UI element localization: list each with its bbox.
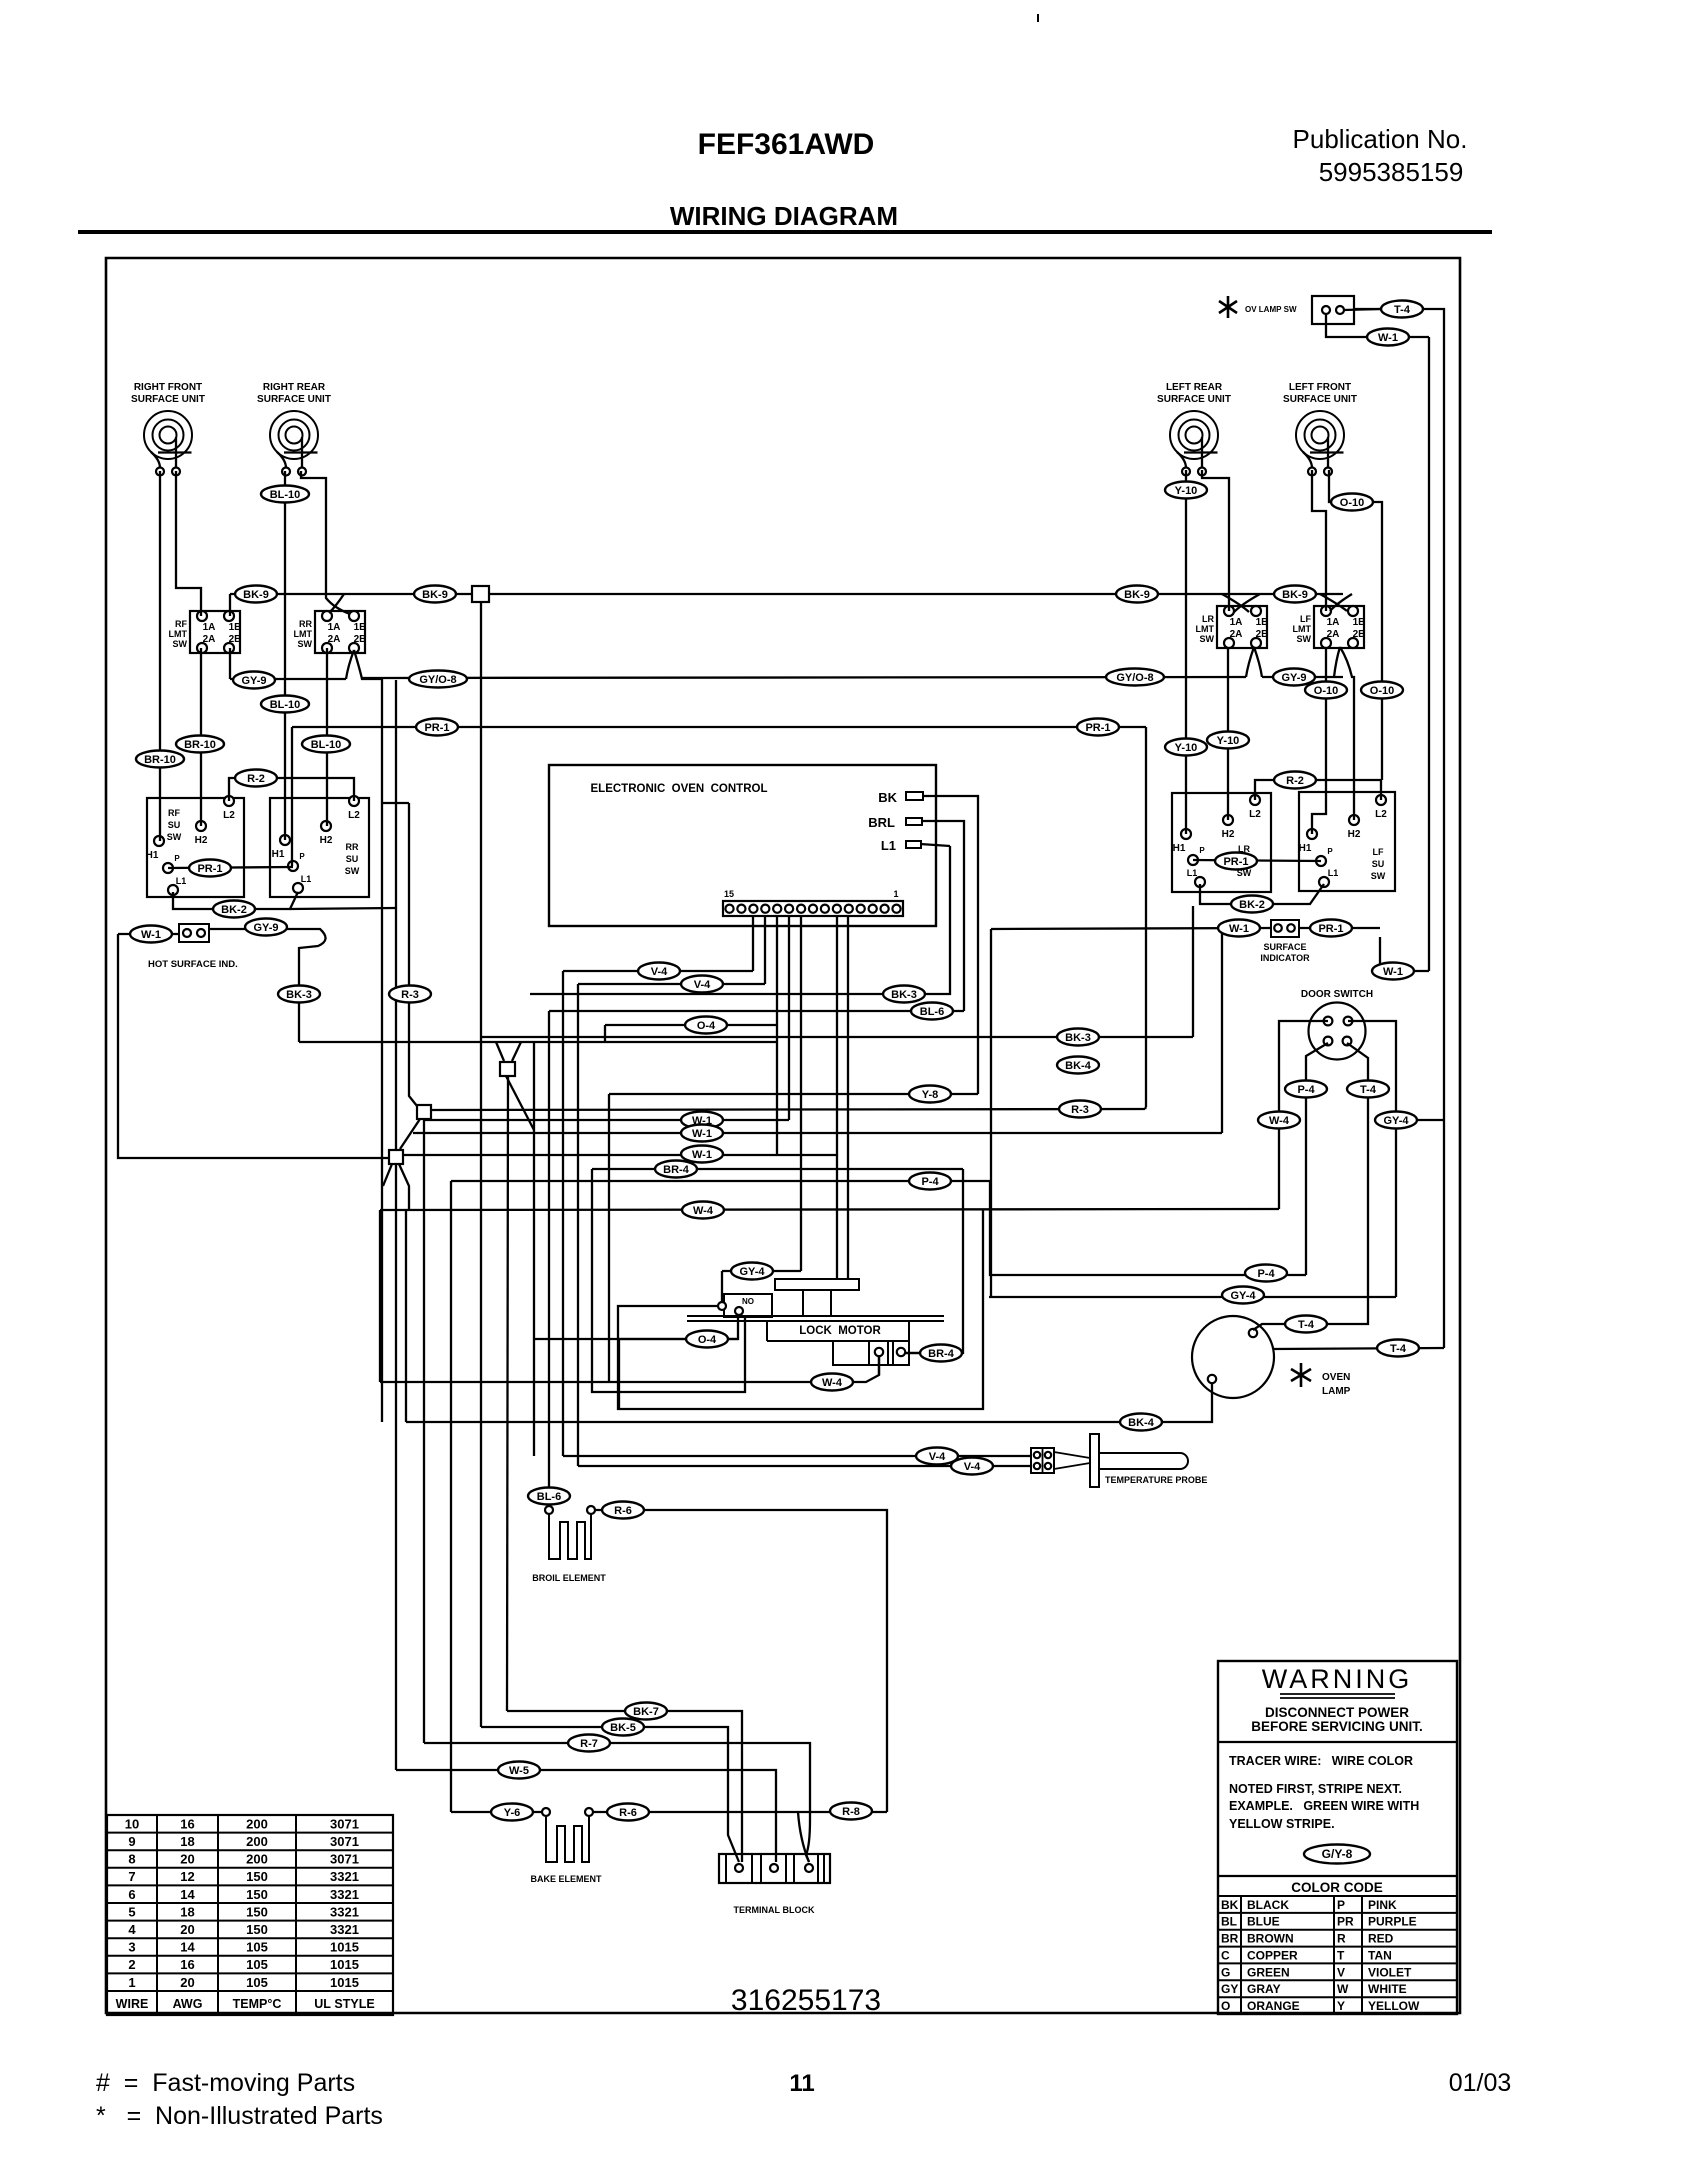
svg-text:RED: RED — [1368, 1932, 1394, 1946]
svg-text:W-4: W-4 — [1269, 1115, 1290, 1127]
svg-text:PINK: PINK — [1368, 1898, 1397, 1912]
wire BK-7 line — [507, 1711, 742, 1862]
svg-text:L2: L2 — [348, 810, 360, 821]
wire label PR-1 — [1310, 920, 1352, 937]
svg-text:PR-1: PR-1 — [1085, 722, 1110, 734]
wire R-8 drop to terminal 3 — [798, 1812, 809, 1862]
svg-text:GY: GY — [1221, 1982, 1238, 1996]
terminal block TB1 — [719, 1854, 830, 1915]
wire junction1 in b — [512, 1042, 521, 1061]
svg-text:L1: L1 — [301, 874, 312, 884]
svg-text:H2: H2 — [195, 835, 208, 846]
svg-text:COPPER: COPPER — [1247, 1948, 1298, 1962]
svg-text:V-4: V-4 — [694, 979, 711, 991]
wire label Y-10 — [1165, 739, 1207, 756]
wire bake R-6 line — [593, 1811, 887, 1813]
wire label R-6 — [607, 1804, 649, 1821]
svg-text:1: 1 — [893, 889, 898, 899]
svg-text:BK-2: BK-2 — [221, 904, 247, 916]
svg-text:R-2: R-2 — [1286, 775, 1304, 787]
svg-text:H2: H2 — [1222, 829, 1235, 840]
svg-text:LF: LF — [1300, 614, 1311, 624]
svg-text:BROWN: BROWN — [1247, 1932, 1294, 1946]
wire BR-4 left drop — [592, 1169, 745, 1392]
svg-text:SURFACE UNIT: SURFACE UNIT — [1283, 394, 1357, 405]
wire RR LMT 2B crossing left — [346, 650, 354, 679]
svg-text:RF: RF — [168, 808, 180, 818]
svg-text:O: O — [1221, 1999, 1230, 2013]
svg-text:LMT: LMT — [294, 629, 313, 639]
svg-text:BL-10: BL-10 — [270, 489, 301, 501]
wire label BK-3 — [1057, 1029, 1099, 1046]
svg-text:W-1: W-1 — [141, 929, 161, 941]
svg-text:BR-10: BR-10 — [184, 739, 216, 751]
svg-text:R-7: R-7 — [580, 1738, 598, 1750]
wire label BK-9 — [414, 586, 456, 603]
svg-text:150: 150 — [246, 1887, 268, 1902]
wire BK tab lead (Y-8) — [922, 796, 978, 1094]
svg-text:TRACER WIRE: WIRE COLOR: TRACER WIRE: WIRE COLOR — [1229, 1754, 1413, 1768]
wire label BL-6 — [911, 1003, 953, 1020]
wire label W-1 — [1372, 963, 1414, 980]
svg-text:BK-4: BK-4 — [1065, 1060, 1092, 1072]
wire BK-4 lamp lead — [406, 1383, 1212, 1422]
wire RF left pin to H1 (BR-10) — [159, 471, 161, 841]
svg-text:BL-6: BL-6 — [920, 1006, 944, 1018]
svg-text:3321: 3321 — [330, 1922, 359, 1937]
wire strip pin drop lock 2 — [847, 916, 849, 1279]
svg-text:W-5: W-5 — [509, 1765, 529, 1777]
svg-text:L1: L1 — [881, 838, 896, 853]
surface indicator — [1260, 920, 1310, 963]
wire junction1 out c — [507, 1076, 508, 1711]
svg-text:GY-9: GY-9 — [1281, 672, 1306, 684]
wire GY/O-8 corner down — [395, 680, 397, 1150]
wire BK-4 bundle rise — [405, 1210, 407, 1422]
wire label O-10 — [1361, 682, 1403, 699]
wire label BL-10 — [261, 696, 309, 713]
svg-text:150: 150 — [246, 1904, 268, 1919]
svg-text:P-4: P-4 — [921, 1176, 939, 1188]
svg-text:BR-4: BR-4 — [928, 1348, 955, 1360]
svg-text:BL-10: BL-10 — [311, 739, 342, 751]
svg-text:BLUE: BLUE — [1247, 1915, 1280, 1929]
svg-text:Y: Y — [1337, 1999, 1345, 2013]
wire BK-9 bus — [230, 593, 1343, 595]
svg-text:3321: 3321 — [330, 1887, 359, 1902]
bake element — [530, 1808, 602, 1884]
svg-text:BL-6: BL-6 — [537, 1491, 561, 1503]
svg-text:GRAY: GRAY — [1247, 1982, 1281, 1996]
svg-text:T-4: T-4 — [1360, 1084, 1377, 1096]
svg-text:SW: SW — [1371, 871, 1386, 881]
svg-text:1A: 1A — [1230, 617, 1243, 628]
wire GY-4 cross right — [1396, 1119, 1444, 1121]
wire label BL-10 — [302, 736, 350, 753]
svg-text:R-2: R-2 — [247, 773, 265, 785]
wire label R-6 — [602, 1502, 644, 1519]
wire label BK-9 — [235, 586, 277, 603]
wire label P-4 — [1245, 1265, 1287, 1282]
svg-text:2A: 2A — [1230, 629, 1243, 640]
svg-text:SW: SW — [173, 639, 188, 649]
wire V-4b drop — [577, 984, 579, 1466]
wire R-7 line — [424, 1743, 810, 1862]
wire label T-4 — [1347, 1081, 1389, 1098]
wire label Y-10 — [1165, 482, 1207, 499]
wire L1 tab lead — [920, 844, 950, 846]
wire RR right pin to RR LMT 1A — [301, 471, 350, 614]
svg-text:R-3: R-3 — [401, 989, 419, 1001]
wire label BR-4 — [920, 1345, 962, 1362]
wire label R-7 — [568, 1735, 610, 1752]
wire label T-4 — [1377, 1340, 1419, 1357]
wire PR-1 right link P-P — [1193, 860, 1321, 861]
wire label BL-10 — [261, 486, 309, 503]
svg-text:Y-10: Y-10 — [1217, 735, 1240, 747]
wire label R-8 — [830, 1803, 872, 1820]
surface unit LEFT FRONT — [1283, 382, 1357, 476]
svg-text:Y-10: Y-10 — [1175, 485, 1198, 497]
wire RR LMT 2B crossing right — [354, 650, 382, 679]
wire LR LMT 2A to H2 (Y-10) — [1227, 647, 1229, 820]
wire junction1 in a — [496, 1042, 504, 1061]
svg-text:V-4: V-4 — [964, 1461, 981, 1473]
wire RR LMT 2A down (BL-10) — [326, 648, 328, 826]
wire R-2 right link — [1255, 780, 1381, 800]
svg-text:W-1: W-1 — [692, 1128, 712, 1140]
wire label W-1 — [681, 1125, 723, 1142]
svg-text:LOCK MOTOR: LOCK MOTOR — [799, 1325, 881, 1337]
svg-text:SU: SU — [346, 854, 359, 864]
svg-text:G/Y-8: G/Y-8 — [1322, 1847, 1353, 1861]
svg-text:20: 20 — [180, 1852, 194, 1867]
svg-text:OVEN: OVEN — [1322, 1372, 1350, 1383]
wire V-4a drop — [562, 971, 564, 1456]
svg-text:SW: SW — [345, 866, 360, 876]
svg-text:BL-10: BL-10 — [270, 699, 301, 711]
wire label GY-4 — [731, 1263, 773, 1280]
wire label Y-10 — [1207, 732, 1249, 749]
svg-text:DOOR SWITCH: DOOR SWITCH — [1301, 989, 1373, 1000]
wire P-4 line — [451, 1180, 990, 1182]
svg-text:1B: 1B — [229, 622, 242, 633]
wire label BR-10 — [136, 751, 184, 768]
svg-text:1B: 1B — [354, 622, 367, 633]
wire label BK-3 — [278, 986, 320, 1003]
svg-text:GY-9: GY-9 — [253, 922, 278, 934]
wire label BR-10 — [176, 736, 224, 753]
wire label W-1 — [681, 1146, 723, 1163]
wire O-4 to lock switch — [534, 1315, 738, 1339]
wire GY-9 bus — [230, 677, 1343, 679]
wire LF LMT 2B crossing — [1334, 647, 1340, 677]
svg-text:T-4: T-4 — [1390, 1343, 1407, 1355]
wire label BK-2 — [1231, 896, 1273, 913]
svg-text:SW: SW — [1200, 634, 1215, 644]
svg-text:14: 14 — [180, 1887, 195, 1902]
wire BK-5 line — [481, 1727, 739, 1862]
wire junction3 out b — [399, 1164, 409, 1211]
lock motor M1 — [687, 1279, 944, 1365]
junction J4 — [389, 1150, 403, 1164]
svg-text:2A: 2A — [203, 634, 216, 645]
wire strip pin drop lock 1 — [836, 916, 838, 1279]
svg-text:7: 7 — [128, 1869, 135, 1884]
svg-text:VIOLET: VIOLET — [1368, 1965, 1412, 1979]
wire PR-1 branch down right — [1145, 727, 1147, 1107]
wire label G/Y-8 — [1304, 1845, 1370, 1864]
wire V-4a line — [563, 970, 753, 972]
svg-text:O-10: O-10 — [1340, 497, 1364, 509]
svg-text:2A: 2A — [1327, 629, 1340, 640]
svg-text:SW: SW — [1297, 634, 1312, 644]
svg-text:01/03: 01/03 — [1449, 2069, 1512, 2097]
wire BR-4 lock lead — [905, 1352, 919, 1354]
svg-text:T-4: T-4 — [1298, 1319, 1315, 1331]
svg-text:W-4: W-4 — [822, 1377, 843, 1389]
svg-text:2A: 2A — [328, 634, 341, 645]
svg-text:1A: 1A — [1327, 617, 1340, 628]
surface unit RIGHT REAR — [257, 382, 331, 476]
wire PR-1 surface ind line — [1299, 927, 1380, 929]
svg-text:2B: 2B — [1256, 629, 1269, 640]
temperature probe connector — [1031, 1448, 1054, 1473]
wire label W-4 — [682, 1202, 724, 1219]
wire BK-3 line right — [530, 846, 950, 994]
svg-text:10: 10 — [125, 1816, 139, 1831]
wire W-4 door rise — [1279, 1021, 1328, 1209]
svg-text:5: 5 — [128, 1904, 135, 1919]
svg-text:INDICATOR: INDICATOR — [1260, 953, 1310, 963]
wire LF LMT 2B to H2 — [1340, 647, 1354, 820]
svg-text:H1: H1 — [1173, 843, 1186, 854]
wire RF LMT 2A to H2 (BR-10) — [200, 648, 202, 826]
wire P-4 link — [990, 1181, 1306, 1275]
svg-text:W-4: W-4 — [693, 1205, 714, 1217]
svg-text:16: 16 — [180, 1816, 194, 1831]
wire label BK-2 — [213, 901, 255, 918]
switch LF SU SW — [1299, 792, 1395, 891]
svg-text:2: 2 — [128, 1957, 135, 1972]
wire label BK-4 — [1120, 1414, 1162, 1431]
svg-text:R-6: R-6 — [619, 1807, 637, 1819]
svg-text:UL STYLE: UL STYLE — [314, 1997, 374, 2011]
wire LR LMT 2B crossing — [1246, 647, 1262, 677]
wire label Y-6 — [491, 1804, 533, 1821]
wire strip pin drop W-1a — [788, 916, 790, 1120]
svg-text:PURPLE: PURPLE — [1368, 1915, 1417, 1929]
wire junction2 down — [423, 1119, 425, 1743]
wire W-1 left drop — [1221, 928, 1223, 1133]
wire BR-4 line — [592, 1168, 963, 1170]
svg-text:RR: RR — [299, 619, 312, 629]
svg-text:BR: BR — [1221, 1932, 1239, 1946]
svg-text:O-4: O-4 — [697, 1020, 716, 1032]
wire label GY/O-8 — [1106, 669, 1164, 686]
svg-text:GREEN: GREEN — [1247, 1965, 1290, 1979]
svg-text:BAKE ELEMENT: BAKE ELEMENT — [530, 1874, 602, 1884]
svg-text:NO: NO — [742, 1297, 754, 1306]
wire GY-4 corner riser — [990, 929, 992, 1297]
svg-text:BRL: BRL — [868, 815, 895, 830]
wire gauge table — [107, 1815, 393, 2015]
wire P-4 drop — [450, 1181, 452, 1812]
wire W-4 bundle left — [379, 1210, 381, 1382]
svg-text:BK-9: BK-9 — [422, 589, 448, 601]
wire label R-2 — [1274, 772, 1316, 789]
svg-text:14: 14 — [180, 1940, 195, 1955]
svg-text:18: 18 — [180, 1904, 194, 1919]
wire label GY-9 — [1273, 669, 1315, 686]
svg-text:105: 105 — [246, 1957, 268, 1972]
broil element — [532, 1506, 606, 1583]
wire BK-2 left link — [173, 892, 298, 909]
svg-text:T: T — [1337, 1948, 1345, 1962]
limit switch LF LMT SW — [1293, 606, 1366, 648]
svg-text:HOT SURFACE IND.: HOT SURFACE IND. — [148, 959, 238, 970]
svg-text:L2: L2 — [223, 810, 235, 821]
wire BK-9 crossing at RR LMT — [329, 594, 344, 613]
svg-text:AWG: AWG — [173, 1997, 203, 2011]
svg-text:BK-3: BK-3 — [286, 989, 312, 1001]
svg-text:O-10: O-10 — [1370, 685, 1394, 697]
svg-text:LEFT REAR: LEFT REAR — [1166, 382, 1223, 393]
svg-text:P-4: P-4 — [1257, 1268, 1275, 1280]
wire W-1c line — [403, 1154, 837, 1156]
svg-text:W: W — [1337, 1982, 1349, 1996]
wire W-4 lock lead — [878, 1357, 880, 1375]
wire label P-4 — [1285, 1081, 1327, 1098]
terminal strip of oven control (pins 15..1) — [723, 889, 903, 916]
svg-text:SURFACE: SURFACE — [1263, 942, 1306, 952]
wire BK-9 crossing at LR LMT — [1222, 594, 1260, 612]
temperature probe — [1054, 1434, 1207, 1487]
svg-text:200: 200 — [246, 1834, 268, 1849]
svg-text:BK: BK — [1221, 1898, 1239, 1912]
svg-text:YELLOW STRIPE.: YELLOW STRIPE. — [1229, 1817, 1335, 1831]
wire BK-3 rise — [1192, 906, 1194, 1037]
svg-text:1015: 1015 — [330, 1975, 359, 1990]
svg-text:150: 150 — [246, 1922, 268, 1937]
limit switch RR LMT SW — [294, 611, 367, 653]
svg-text:BK-9: BK-9 — [243, 589, 269, 601]
wire label W-1 — [130, 926, 172, 943]
svg-text:SU: SU — [168, 820, 181, 830]
svg-text:5995385159: 5995385159 — [1319, 157, 1464, 187]
svg-text:Y-10: Y-10 — [1175, 742, 1198, 754]
wire Y-8 line — [609, 1093, 978, 1095]
svg-text:P: P — [299, 852, 305, 861]
wire label BK-7 — [625, 1703, 667, 1720]
wire RF LMT 1B to BK-9 line — [229, 594, 231, 616]
svg-text:TEMP°C: TEMP°C — [233, 1997, 282, 2011]
wire label BK-3 — [883, 986, 925, 1003]
svg-text:GY-9: GY-9 — [241, 675, 266, 687]
svg-text:GY/O-8: GY/O-8 — [1116, 672, 1153, 684]
wire J2 to J4 slant — [400, 1119, 420, 1149]
oven lamp switch (OV LAMP SW) — [1219, 296, 1354, 324]
lock motor switch (NO) — [718, 1294, 772, 1317]
wire GY-4 lower line — [989, 1296, 1396, 1298]
wire label R-3 — [1059, 1101, 1101, 1118]
svg-text:BK-3: BK-3 — [891, 989, 917, 1001]
svg-text:BK-4: BK-4 — [1128, 1417, 1155, 1429]
svg-text:1: 1 — [128, 1975, 135, 1990]
svg-text:RIGHT REAR: RIGHT REAR — [263, 382, 326, 393]
svg-text:2B: 2B — [354, 634, 367, 645]
junction J3 — [417, 1105, 431, 1119]
wire W-4 door line — [380, 1209, 1279, 1210]
svg-text:200: 200 — [246, 1816, 268, 1831]
wire R-3 line right — [431, 1109, 1145, 1110]
svg-text:LEFT FRONT: LEFT FRONT — [1289, 382, 1351, 393]
wire W-4 lower line — [380, 1357, 879, 1382]
wire label V-4 — [916, 1448, 958, 1465]
wire O-4 oval lead — [619, 1339, 738, 1409]
svg-text:1015: 1015 — [330, 1957, 359, 1972]
svg-text:T-4: T-4 — [1394, 304, 1411, 316]
wire BK-9 junction drop — [480, 601, 482, 1727]
svg-text:WIRING DIAGRAM: WIRING DIAGRAM — [670, 201, 898, 231]
svg-text:BR-4: BR-4 — [663, 1164, 690, 1176]
svg-text:BK-9: BK-9 — [1124, 589, 1150, 601]
svg-text:O-4: O-4 — [698, 1334, 717, 1346]
wire LR left pin to H1 (Y-10) — [1185, 470, 1187, 834]
wire W-1a line — [424, 1119, 789, 1121]
wire label GY-4 — [1375, 1112, 1417, 1129]
svg-text:105: 105 — [246, 1975, 268, 1990]
svg-text:WARNING: WARNING — [1262, 1664, 1413, 1694]
svg-text:ELECTRONIC OVEN CONTROL: ELECTRONIC OVEN CONTROL — [591, 783, 768, 795]
switch RR SU SW — [270, 796, 369, 897]
svg-text:LR: LR — [1202, 614, 1214, 624]
svg-text:20: 20 — [180, 1922, 194, 1937]
wire LF right pin via O-10 — [1329, 470, 1382, 780]
svg-text:# = Fast-moving Parts: # = Fast-moving Parts — [96, 2069, 355, 2097]
wire W-1 surface ind line — [991, 928, 1271, 929]
wire PR-1 bus — [292, 726, 1146, 728]
wire label GY-4 — [1222, 1287, 1264, 1304]
svg-text:C: C — [1221, 1948, 1230, 1962]
svg-text:YELLOW: YELLOW — [1368, 1999, 1420, 2013]
svg-text:4: 4 — [128, 1922, 136, 1937]
svg-text:W-1: W-1 — [1378, 332, 1398, 344]
wire BK-3 line (mid) — [481, 1036, 1193, 1038]
limit switch RF LMT SW — [169, 611, 242, 653]
svg-text:BR-10: BR-10 — [144, 754, 176, 766]
wire BL-6 drop to broil — [548, 1011, 550, 1506]
wire label W-1 — [1367, 329, 1409, 346]
svg-text:RR: RR — [346, 842, 359, 852]
svg-text:V-4: V-4 — [651, 966, 668, 978]
svg-text:16: 16 — [180, 1957, 194, 1972]
wire strip pin drop O-4 / W-1c — [776, 916, 778, 1155]
surface unit LEFT REAR — [1157, 382, 1231, 476]
svg-text:H1: H1 — [146, 850, 159, 861]
wire V-4b line — [578, 983, 765, 985]
svg-text:P: P — [1199, 846, 1205, 855]
svg-text:Y-8: Y-8 — [922, 1089, 939, 1101]
wire label W-1 — [681, 1112, 723, 1129]
wire label W-5 — [498, 1762, 540, 1779]
wire T-4 lamp line — [1273, 1348, 1444, 1349]
svg-text:LMT: LMT — [169, 629, 188, 639]
door switch S2 — [1301, 989, 1373, 1060]
wire V-4 probe line b — [578, 1465, 1031, 1467]
svg-text:TERMINAL BLOCK: TERMINAL BLOCK — [734, 1905, 815, 1915]
svg-text:1B: 1B — [1256, 617, 1269, 628]
